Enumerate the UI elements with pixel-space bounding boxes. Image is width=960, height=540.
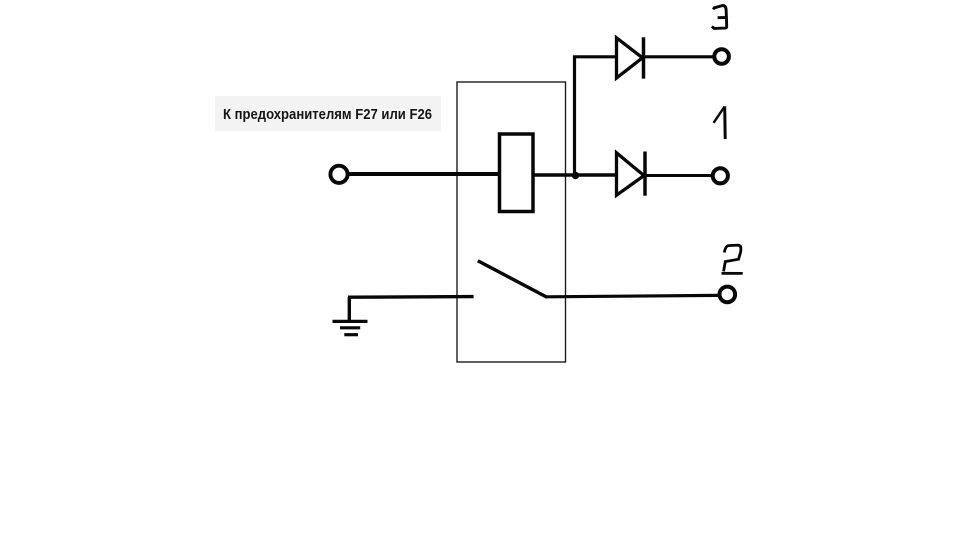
terminal 2 open circle <box>720 287 736 303</box>
diode D1 (top) triangle <box>617 38 643 78</box>
wire: switch to terminal 2 <box>547 295 719 296</box>
wire: left terminal to coil <box>347 172 502 176</box>
label background box <box>215 96 441 131</box>
wire: coil to junction to bottom diode anode <box>531 173 617 177</box>
terminal: left open circle <box>330 166 347 183</box>
relay box outline <box>457 82 566 362</box>
ground symbol <box>348 297 351 321</box>
pin label 1 (hand-drawn) <box>714 107 725 123</box>
wire: riser from junction up and over to top diode <box>575 57 618 176</box>
terminal 3 open circle <box>714 49 729 64</box>
diode D2 cathode bar <box>643 152 647 196</box>
wire: D1 cathode to terminal 3 <box>645 55 713 58</box>
terminal 1 open circle <box>713 168 728 183</box>
switch blade <box>478 261 547 297</box>
wire: D2 cathode to terminal 1 <box>646 174 712 177</box>
wire: ground to switch left contact <box>348 295 474 299</box>
node junction dot <box>572 172 579 179</box>
diode D2 (bottom) triangle <box>617 153 645 195</box>
pin label 3 (hand-drawn) <box>712 6 727 29</box>
svg-text:К предохранителям F27 или F26: К предохранителям F27 или F26 <box>223 106 432 123</box>
relay coil <box>500 134 534 212</box>
diode D1 cathode bar <box>642 37 646 78</box>
pin label 2 (hand-drawn) <box>722 245 743 273</box>
